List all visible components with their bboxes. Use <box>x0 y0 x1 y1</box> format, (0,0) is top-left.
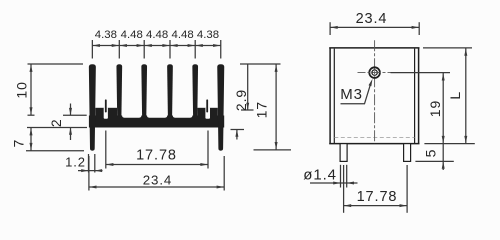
svg-text:L: L <box>447 91 463 100</box>
svg-text:23.4: 23.4 <box>143 172 172 187</box>
svg-text:23.4: 23.4 <box>356 11 388 27</box>
right mounting ridge <box>198 108 218 118</box>
svg-text:4.48: 4.48 <box>146 29 168 41</box>
dimension 17 <box>275 64 277 150</box>
left ridge slot <box>104 107 108 118</box>
fin 4 <box>167 64 173 117</box>
svg-text:ø1.4: ø1.4 <box>303 167 337 184</box>
dimension 17.78 left view <box>106 164 208 166</box>
svg-text:4.48: 4.48 <box>172 29 194 41</box>
dimension 23.4 left-view extension lines <box>88 156 90 191</box>
dimension 17.78 left-view extension lines <box>105 131 107 169</box>
fin 5 <box>192 64 198 117</box>
svg-text:M3: M3 <box>340 86 363 103</box>
side view inner edge lines <box>333 49 335 144</box>
svg-text:4.48: 4.48 <box>121 29 143 41</box>
dimension 5 <box>442 144 444 170</box>
dimension 2/7 extension line <box>27 127 87 129</box>
right ridge slot <box>205 107 210 118</box>
left ridge tongue <box>105 99 107 112</box>
dimension 7 extension line bottom <box>26 150 84 152</box>
dimension 17.78 side-view extension lines <box>343 165 345 213</box>
fin pitch arrows <box>93 44 221 47</box>
left solder pin <box>340 144 347 162</box>
left mounting ridge <box>95 108 117 118</box>
svg-text:4.38: 4.38 <box>95 29 117 41</box>
dimension 17 extension line bottom <box>254 149 292 151</box>
dimension 7 <box>30 128 32 151</box>
side view vertical centerline <box>374 40 376 143</box>
fin pitch extension lines <box>92 40 220 59</box>
dimension 2.9 tick lower <box>231 129 245 131</box>
bottom shared extension line <box>424 143 474 145</box>
right-side top extension line <box>240 63 281 65</box>
dimension 23.4 side-view extension lines <box>329 22 331 35</box>
M3 leader line <box>341 83 371 104</box>
right leg fin <box>217 64 224 151</box>
dimension 19 <box>442 73 444 144</box>
fin 3 <box>141 64 147 117</box>
dimension 10 <box>30 64 32 115</box>
dimension L <box>465 48 467 144</box>
mounting hole M3 <box>369 67 380 78</box>
dimension 2.9 tick upper <box>241 109 254 111</box>
fin gap fillets <box>122 100 192 118</box>
mounting hole horizontal centerline <box>358 72 392 74</box>
dimension 19 extension line <box>391 72 451 74</box>
dimension 23.4 side view <box>330 26 419 28</box>
svg-text:5: 5 <box>423 149 439 158</box>
heatsink base plate (cross-section view) <box>89 116 224 128</box>
svg-text:17.78: 17.78 <box>357 189 398 205</box>
fin pitch dimension line <box>92 45 220 47</box>
svg-text:2: 2 <box>48 118 64 127</box>
svg-text:2.9: 2.9 <box>233 89 249 111</box>
dimension 2.9 <box>247 64 249 110</box>
left leg fin <box>89 64 96 151</box>
pin diameter extension lines <box>340 165 342 188</box>
svg-text:7: 7 <box>11 139 27 148</box>
dimension 10 extension line top <box>28 63 84 65</box>
svg-text:4.38: 4.38 <box>197 29 219 41</box>
dimension L extension line <box>423 47 472 49</box>
svg-text:10: 10 <box>14 81 30 98</box>
right ridge tongue <box>206 99 208 112</box>
side view hidden base line <box>334 137 414 139</box>
side view body outline <box>329 48 419 144</box>
fin 2 <box>116 64 122 117</box>
dimension 2 <box>70 104 72 116</box>
dimension 1.2 <box>78 170 103 172</box>
svg-text:17.78: 17.78 <box>136 148 177 164</box>
dimension 1.4 diameter <box>310 182 358 184</box>
right solder pin <box>404 144 411 162</box>
svg-text:1.2: 1.2 <box>65 155 86 170</box>
dimension 1.2 extension lines <box>88 154 90 173</box>
dimension 23.4 left view <box>89 186 224 188</box>
dimension 17.78 side view <box>344 205 408 207</box>
svg-text:19: 19 <box>427 100 443 117</box>
svg-text:17: 17 <box>253 101 269 118</box>
pin bottom extension line <box>415 160 453 162</box>
dimension 10 extension line bottom <box>28 114 35 116</box>
dimension 2 extension line top <box>63 114 87 116</box>
